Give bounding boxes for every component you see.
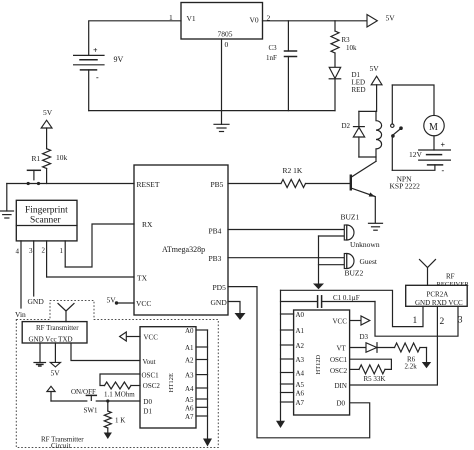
- svg-text:TX: TX: [137, 274, 148, 283]
- svg-text:2: 2: [42, 247, 46, 255]
- svg-text:OSC1: OSC1: [142, 371, 160, 379]
- wire ground rail to receiver GND pin1: [281, 290, 424, 326]
- svg-text:10k: 10k: [56, 153, 68, 162]
- svg-text:C3: C3: [269, 44, 278, 52]
- pin 4: [16, 241, 22, 308]
- svg-text:BUZ1: BUZ1: [341, 213, 360, 222]
- ground G2 (emitter): [369, 223, 383, 230]
- RF transmitter module TX1: [22, 322, 87, 344]
- wire regulator output 5V rail: [263, 20, 368, 22]
- svg-text:SW1: SW1: [84, 407, 99, 415]
- resistor 1K pull-down: [104, 401, 126, 439]
- svg-text:RECEIVER: RECEIVER: [437, 281, 470, 288]
- svg-text:A5: A5: [296, 381, 305, 389]
- buzzer BUZ2: [228, 254, 378, 278]
- svg-text:Circuit: Circuit: [51, 442, 70, 450]
- svg-text:A2: A2: [185, 357, 194, 365]
- switch SW1 ON/OFF: [51, 388, 98, 415]
- svg-text:D2: D2: [342, 122, 351, 130]
- svg-text:A5: A5: [185, 396, 194, 404]
- svg-text:PB4: PB4: [209, 227, 222, 236]
- 5V arrow up (SW1): [47, 386, 55, 401]
- svg-text:Fingerprint: Fingerprint: [25, 206, 68, 216]
- svg-text:-: -: [442, 166, 445, 175]
- svg-text:Scanner: Scanner: [30, 216, 61, 226]
- svg-text:HT12D: HT12D: [315, 354, 322, 374]
- svg-text:R3: R3: [342, 36, 351, 44]
- 5V supply arrow (reset pull-up): [41, 108, 53, 149]
- 5V supply arrow above relay coil: [370, 64, 383, 111]
- transistor Q1 NPN KSP 2222: [306, 161, 421, 223]
- ground G3: [1, 184, 14, 219]
- resistor R2 1K: [228, 166, 306, 188]
- 5V supply arrow (right): [367, 14, 395, 28]
- svg-text:ATmega328p: ATmega328p: [162, 245, 205, 254]
- svg-text:12V: 12V: [409, 150, 423, 159]
- svg-text:PB5: PB5: [211, 180, 224, 189]
- node 5V to ATmega VCC: [107, 296, 135, 305]
- svg-text:PB3: PB3: [209, 254, 222, 263]
- wire HT12E address bus A0-A7: [196, 330, 212, 447]
- antenna ANT1 (transmitter): [58, 304, 74, 322]
- 5V supply arrow down (TX Vcc): [50, 343, 60, 378]
- svg-text:5V: 5V: [51, 369, 61, 378]
- svg-text:RED: RED: [352, 86, 366, 94]
- svg-text:OSC2: OSC2: [143, 382, 161, 390]
- svg-text:1: 1: [169, 13, 173, 22]
- svg-text:Guest: Guest: [360, 257, 378, 266]
- svg-text:Unknown: Unknown: [350, 240, 380, 249]
- svg-text:5V: 5V: [107, 296, 117, 305]
- svg-text:A7: A7: [296, 399, 305, 407]
- pin 3: [29, 241, 34, 296]
- wire pin1 to RX: [65, 224, 134, 267]
- svg-text:GND RXD VCC: GND RXD VCC: [415, 299, 463, 307]
- resistor R5 33K: [350, 365, 386, 383]
- svg-text:5V: 5V: [43, 108, 53, 117]
- wire OSC1 loop: [100, 374, 140, 386]
- dashed enclosure RF transmitter circuit: [16, 301, 218, 448]
- svg-text:+: +: [93, 46, 98, 55]
- svg-text:4: 4: [16, 248, 20, 256]
- buzzer BUZ1: [228, 213, 360, 241]
- wire ATmega GND pin to ground: [228, 302, 246, 321]
- svg-text:OSC1: OSC1: [330, 356, 348, 364]
- svg-text:D0: D0: [143, 398, 152, 406]
- resistor R6 2.2k: [395, 343, 432, 371]
- battery 9V B1: [74, 46, 124, 82]
- svg-text:GND: GND: [28, 297, 45, 306]
- svg-text:1: 1: [60, 247, 64, 255]
- svg-text:0: 0: [225, 40, 229, 49]
- capacitor C1 0.1uF: [281, 294, 376, 307]
- wire battery top to regulator input: [89, 21, 181, 56]
- wire motor to battery: [433, 136, 435, 150]
- svg-text:A6: A6: [185, 404, 194, 412]
- svg-text:M: M: [429, 122, 438, 133]
- decoder U3 HT12D: [294, 310, 350, 415]
- wire TXD to HT12E Vout: [71, 343, 140, 361]
- svg-text:KSP 2222: KSP 2222: [390, 182, 421, 191]
- svg-text:9V: 9V: [114, 55, 124, 64]
- svg-text:7805: 7805: [218, 30, 233, 39]
- svg-text:VT: VT: [337, 345, 347, 353]
- svg-text:R1: R1: [32, 154, 41, 163]
- wire reset rail: [7, 183, 134, 185]
- svg-text:A1: A1: [185, 344, 194, 352]
- svg-text:A3: A3: [185, 372, 194, 380]
- diode D3: [350, 333, 395, 352]
- 5V supply arrow right (HT12D VCC): [350, 316, 370, 325]
- LED D1 RED: [329, 67, 365, 110]
- wire PD5 to HT12D D0: [228, 287, 370, 438]
- ground G1: [214, 111, 229, 132]
- svg-text:3: 3: [29, 247, 33, 255]
- svg-text:V0: V0: [250, 16, 259, 25]
- node junction dot: [106, 399, 109, 402]
- svg-text:A7: A7: [185, 413, 194, 421]
- svg-text:GND Vcc TXD: GND Vcc TXD: [29, 336, 73, 344]
- wire regulator 0 pin: [221, 39, 223, 111]
- svg-text:RX: RX: [142, 220, 153, 229]
- svg-text:RESET: RESET: [137, 180, 160, 189]
- wire HT12D address bus A0-A7: [276, 290, 294, 428]
- svg-text:5V: 5V: [386, 14, 396, 23]
- wire C1 to receiver VCC pin3: [375, 302, 458, 337]
- wire battery bottom loop: [392, 165, 435, 170]
- resistor R1 10k: [32, 149, 68, 184]
- svg-text:1: 1: [413, 316, 418, 326]
- svg-text:5V: 5V: [370, 64, 380, 73]
- pin 1: [60, 241, 66, 267]
- svg-text:D1: D1: [143, 408, 152, 416]
- wire DIN to receiver RXD pin2: [350, 307, 438, 386]
- svg-text:1.1 MOhm: 1.1 MOhm: [104, 391, 135, 399]
- svg-text:D3: D3: [360, 333, 369, 341]
- svg-text:C1 0.1µF: C1 0.1µF: [333, 294, 360, 302]
- svg-text:R2 1K: R2 1K: [283, 166, 303, 175]
- relay switch contacts: [391, 85, 403, 170]
- svg-text:2: 2: [440, 317, 445, 327]
- svg-text:1 K: 1 K: [115, 417, 125, 425]
- svg-text:D0: D0: [337, 400, 346, 408]
- svg-text:A3: A3: [296, 356, 305, 364]
- label RF Transmitter Circuit: [41, 436, 84, 450]
- svg-text:Vin: Vin: [15, 310, 26, 319]
- svg-text:A4: A4: [296, 370, 305, 378]
- wire OSC1 loop (HT12D): [350, 359, 392, 369]
- relay coil L1: [376, 111, 382, 161]
- 5V supply arrow left (HT12E VCC): [120, 332, 140, 341]
- svg-text:Vout: Vout: [143, 358, 156, 366]
- svg-text:2.2k: 2.2k: [405, 363, 418, 371]
- svg-text:A0: A0: [296, 311, 305, 319]
- svg-text:A1: A1: [296, 327, 305, 335]
- svg-text:3: 3: [458, 315, 463, 325]
- diode D2 flyback: [342, 111, 377, 157]
- wire ground rail bottom: [88, 70, 90, 111]
- fingerprint scanner module FS1: [16, 200, 77, 241]
- wire D0 line right part: [96, 400, 140, 402]
- svg-text:VCC: VCC: [333, 318, 348, 326]
- resistor 1.1 MOhm: [104, 382, 140, 399]
- resistor R3 10k: [331, 21, 357, 68]
- wire pin2 to TX: [47, 276, 134, 278]
- svg-text:A4: A4: [185, 385, 194, 393]
- svg-text:RF Transmitter: RF Transmitter: [36, 324, 79, 332]
- svg-text:A2: A2: [296, 342, 305, 350]
- MCU U1 ATmega328p: [134, 165, 228, 315]
- wire TX GND pin to ground: [34, 343, 46, 366]
- svg-text:OSC2: OSC2: [330, 367, 348, 375]
- svg-text:HT12E: HT12E: [168, 373, 175, 392]
- RF receiver module PCR2A: [406, 285, 468, 307]
- svg-text:A6: A6: [296, 390, 305, 398]
- wire buzzer common bus to ground arrow: [313, 236, 324, 289]
- svg-text:GND: GND: [211, 298, 228, 307]
- pin 2: [42, 241, 47, 277]
- svg-text:ON/OFF: ON/OFF: [71, 388, 96, 396]
- svg-text:DIN: DIN: [335, 382, 347, 390]
- svg-text:V1: V1: [187, 14, 196, 23]
- svg-text:+: +: [441, 141, 446, 150]
- wire motor loop top: [392, 85, 434, 115]
- svg-text:VCC: VCC: [144, 333, 159, 341]
- svg-text:VCC: VCC: [136, 299, 151, 308]
- svg-text:1nF: 1nF: [266, 54, 277, 62]
- svg-text:-: -: [96, 73, 99, 82]
- label RF RECEIVER: [437, 273, 470, 288]
- svg-text:PCR2A: PCR2A: [427, 291, 449, 299]
- push button S1 (reset): [27, 170, 41, 185]
- voltage regulator V1 7805: [181, 3, 263, 40]
- encoder U2 HT12E: [140, 327, 196, 428]
- svg-text:RF: RF: [446, 273, 455, 281]
- svg-text:BUZ2: BUZ2: [345, 269, 364, 278]
- antenna ANT2 (receiver): [420, 260, 436, 286]
- battery 12V B2: [409, 141, 450, 176]
- motor M1: [424, 115, 444, 135]
- svg-text:A0: A0: [185, 327, 194, 335]
- svg-text:R5 33K: R5 33K: [364, 375, 386, 383]
- svg-text:PD5: PD5: [213, 283, 227, 292]
- svg-text:10k: 10k: [346, 44, 357, 52]
- capacitor C3 1nF: [266, 21, 297, 111]
